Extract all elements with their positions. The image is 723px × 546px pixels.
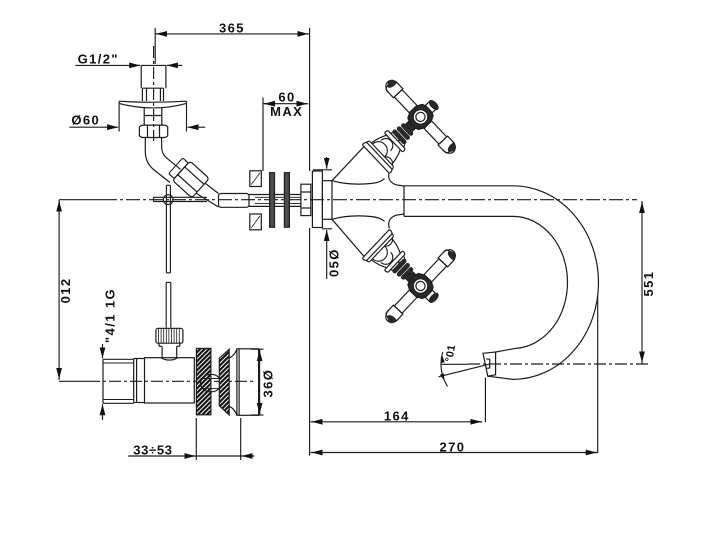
drain flange bell (229, 349, 258, 416)
svg-text:365: 365 (219, 21, 245, 36)
drain rubber washer 2 (hatched) (219, 349, 229, 415)
svg-text:MAX: MAX (270, 104, 303, 119)
svg-text:270: 270 (440, 440, 466, 455)
dimension 210 (58, 200, 73, 380)
wall escutcheon flange top (Ø60) (119, 101, 186, 108)
svg-text:"4/1 1G: "4/1 1G (102, 288, 117, 343)
spout tube and curve (404, 186, 599, 380)
pop-up rod vertical (166, 185, 171, 327)
centerline spout outlet axis (468, 363, 649, 365)
drain rubber washer 1 (hatched) (196, 348, 211, 414)
dimension 33÷53 (128, 418, 254, 460)
dimension 60 MAX (263, 90, 308, 172)
centerline main horizontal (59, 199, 637, 201)
drain knurled nut (156, 328, 183, 343)
wall plate 1 (270, 173, 275, 228)
union nut 45deg (167, 156, 209, 198)
wall plate 2 (284, 173, 289, 228)
pop-up rod pivot (154, 195, 208, 205)
angle 10 deg (439, 344, 490, 387)
wall line (309, 28, 311, 456)
dimension G1 1/4" (102, 288, 117, 420)
svg-text:36Ø: 36Ø (261, 369, 276, 398)
pipe below flange (144, 108, 162, 125)
svg-text:33÷53: 33÷53 (133, 442, 173, 457)
dimension 365 (155, 21, 309, 64)
svg-text:551: 551 (641, 271, 656, 297)
drain tailpiece oval (201, 374, 222, 392)
faucet body (322, 146, 404, 256)
svg-text:G1/2": G1/2" (78, 51, 119, 66)
drain inlet pipe G1 1/4 (103, 359, 134, 403)
dimension Ø60 (69, 104, 205, 132)
top inlet pipe G1/2 (141, 65, 166, 101)
inlet assembly horizontal: union body (219, 194, 301, 208)
upper valve U1 (342, 68, 468, 195)
vertical rod drain top connection (168, 310, 170, 328)
svg-text:Ø60: Ø60 (71, 113, 100, 128)
spout tip cap (483, 352, 496, 376)
dimension Ø63 (251, 349, 276, 415)
dimension Ø50 (313, 157, 342, 279)
lower valve U2 (mirror) (342, 209, 468, 336)
svg-text:05Ø: 05Ø (327, 248, 342, 277)
pipe from union to body (197, 184, 219, 208)
elbow pipe to union (145, 138, 180, 183)
dimension 270 (311, 295, 598, 455)
svg-text:60: 60 (278, 90, 295, 105)
centerline top pipe vertical (153, 46, 155, 141)
clamp flange with tabs (250, 171, 261, 230)
dimension G1/2" (75, 51, 182, 66)
svg-text:012: 012 (58, 278, 73, 304)
drain valve neck (159, 343, 180, 358)
svg-text:164: 164 (384, 408, 410, 423)
centerline drain axis (59, 380, 255, 382)
dimension 155 (641, 201, 656, 364)
escutcheon at wall (Ø50) (312, 171, 322, 228)
drain body (134, 358, 195, 403)
hex nut at wall (301, 184, 311, 215)
dimension 164 (311, 378, 486, 424)
hex nut on top pipe (139, 125, 167, 137)
